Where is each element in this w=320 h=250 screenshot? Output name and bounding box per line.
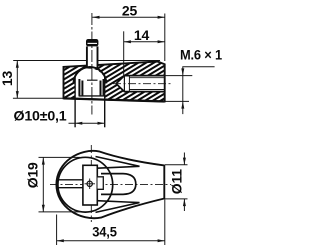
body section hatch fill	[64, 39, 165, 102]
vertical centerline	[90, 145, 92, 222]
dimension 13	[0, 61, 64, 99]
dimension 14	[124, 27, 165, 77]
central block	[83, 165, 97, 205]
thread label M.6 x 1 with leader	[163, 47, 222, 115]
dimension d10 +-0,1	[14, 108, 105, 125]
svg-text:M.6 × 1: M.6 × 1	[180, 47, 222, 63]
top wedge (chamfer edges)	[96, 157, 140, 169]
stud bottom end face	[87, 79, 98, 81]
dimension 25	[92, 3, 165, 61]
dimension d19	[25, 157, 81, 212]
dimension 34,5	[57, 200, 165, 246]
body outline	[64, 62, 165, 102]
pivot hole	[85, 179, 96, 190]
svg-text:13: 13	[0, 71, 15, 87]
svg-text:34,5: 34,5	[92, 223, 117, 239]
side bore outline	[116, 76, 165, 92]
slot lines left of block	[59, 179, 83, 181]
cam circle d19	[58, 157, 113, 212]
dome (ball seat arc)	[74, 67, 107, 83]
svg-text:14: 14	[134, 27, 150, 43]
cavity white (dome + bore hole)	[75, 69, 105, 101]
dimension d11	[165, 153, 188, 212]
horizontal centerline	[50, 183, 171, 185]
svg-text:25: 25	[122, 3, 138, 19]
node top plane line (13 extension)	[13, 60, 87, 62]
insert bushing (double walls + bottom)	[79, 79, 105, 96]
axis centerline (vertical, stud axis)	[91, 13, 93, 115]
svg-text:Ø19: Ø19	[25, 162, 41, 188]
svg-text:Ø11: Ø11	[168, 169, 184, 195]
bottom wedge (chamfer edges)	[96, 201, 140, 213]
svg-text:Ø10±0,1: Ø10±0,1	[14, 108, 67, 124]
right tab	[98, 177, 104, 190]
U slot (fork)	[101, 174, 136, 195]
bore axis centerline	[113, 83, 171, 85]
stud (threaded M6 screw)	[86, 39, 98, 68]
hole wall right (d10)	[104, 77, 106, 128]
outer cam silhouette	[56, 151, 164, 218]
hole wall left (d10)	[74, 76, 76, 127]
